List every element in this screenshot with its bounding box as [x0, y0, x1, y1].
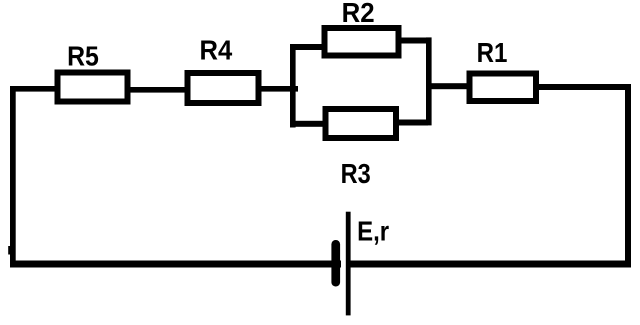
- resistor R5: [58, 41, 128, 102]
- wire: R2 left lead: [290, 44, 325, 50]
- wire: R5 to R4: [128, 87, 188, 93]
- battery E,r : short thick plate (negative): [331, 240, 340, 287]
- resistor R3: [326, 109, 397, 189]
- svg-text:E,r: E,r: [357, 215, 389, 246]
- battery E,r : long thin plate (positive): [346, 212, 351, 316]
- wire: top-left horizontal segment to R5: [10, 86, 58, 92]
- wire: R3 right lead: [396, 120, 428, 126]
- svg-text:R3: R3: [341, 158, 371, 189]
- wire: node B to R1: [429, 83, 470, 89]
- svg-text:R1: R1: [477, 37, 508, 68]
- wire: R1 to right vertical side: [536, 84, 631, 90]
- node B: right vertical junction of parallel branch: [426, 37, 432, 125]
- wire: bottom-left horizontal segment to battery: [10, 261, 341, 268]
- svg-text:R4: R4: [200, 35, 233, 66]
- resistor R1: [470, 37, 537, 101]
- wire: R3 left lead: [290, 121, 326, 127]
- wire: R4 to parallel node A: [259, 86, 298, 92]
- node A: left vertical junction of parallel branch: [290, 44, 296, 128]
- resistor R2: [325, 0, 399, 56]
- svg-text:R5: R5: [67, 41, 99, 72]
- resistor R4: [188, 35, 259, 103]
- wire: left vertical side of loop: [8, 86, 16, 268]
- svg-text:R2: R2: [342, 0, 375, 28]
- wire: bottom-right horizontal segment from battery: [351, 261, 632, 268]
- wire: right vertical side of loop: [625, 84, 631, 268]
- wire: R2 right lead: [398, 38, 428, 44]
